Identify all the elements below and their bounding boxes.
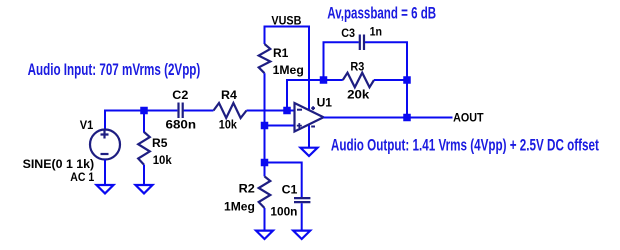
wire bias column R1 down through to R2 [264,73,266,176]
ground under C1 [293,231,310,239]
resistor R3 [343,73,374,88]
resistor R5 [138,132,150,165]
wire R2 bottom [264,208,266,231]
wire R3 left lead [324,79,343,81]
svg-text:C1: C1 [282,182,298,196]
svg-text:Audio Output: 1.41 Vrms (4Vpp): Audio Output: 1.41 Vrms (4Vpp) + 2.5V DC… [331,137,599,155]
wire R4 to op-amp inverting input [247,110,295,112]
junction node feedback left [320,76,328,84]
junction node noninverting branch [261,122,269,130]
voltage source V1 [90,130,120,160]
wire feedback vertical up from inverting node [287,80,324,111]
wire op-amp output to AOUT [324,117,453,119]
capacitor C3 [360,35,364,51]
svg-text:100n: 100n [270,205,297,219]
svg-text:U1: U1 [317,95,333,109]
svg-text:C3: C3 [341,26,355,40]
ground under op-amp [301,148,318,156]
svg-text:AC 1: AC 1 [70,170,94,184]
svg-text:R2: R2 [239,181,256,195]
svg-text:V1: V1 [80,118,94,132]
svg-text:AOUT: AOUT [453,111,484,125]
wire C2 to R4 [184,110,214,112]
svg-text:680n: 680n [166,117,197,131]
svg-text:C2: C2 [172,88,188,102]
svg-text:1Meg: 1Meg [224,200,255,214]
wire R5 bottom [143,165,145,185]
svg-text:10k: 10k [153,153,172,167]
svg-text:VUSB: VUSB [271,13,301,27]
svg-text:1n: 1n [370,25,382,39]
junction node bias RC [261,159,269,167]
ground under R5 [136,185,153,193]
svg-text:R4: R4 [221,88,237,102]
wire R3 right lead [374,79,407,81]
svg-text:Av,passband = 6 dB: Av,passband = 6 dB [327,4,436,22]
svg-text:Audio Input: 707 mVrms (2Vpp): Audio Input: 707 mVrms (2Vpp) [28,61,201,79]
net flag VUSB wire [265,27,310,111]
resistor R1 [259,44,271,73]
wire C1 bottom [301,203,303,230]
svg-text:SINE(0 1 1k): SINE(0 1 1k) [23,157,95,171]
svg-text:20k: 20k [347,87,370,101]
resistor R4 [214,103,247,118]
wire C3 left branch [324,42,359,80]
junction node output feedback tap [403,114,411,122]
capacitor C1 [294,198,310,202]
wire op-amp V- power pin to ground [308,124,310,147]
wire signal row V1 to C2 [105,111,177,130]
wire C3 right branch [365,42,407,117]
ground under V1 [97,185,114,193]
junction node feedback right [403,76,411,84]
capacitor C2 [179,103,183,119]
ground under R2 [256,231,273,239]
wire bias node to C1 [265,163,302,198]
op-amp U1 [295,103,324,132]
svg-text:R3: R3 [350,60,364,74]
wire R5 top [143,111,145,133]
wire V1 bottom pin [104,160,106,186]
svg-text:R1: R1 [273,46,289,60]
junction node at R5 top [140,107,148,115]
svg-text:10k: 10k [219,117,237,131]
wire to noninverting input [265,125,295,127]
resistor R2 [259,176,271,208]
junction node at inverting input feedback [283,107,291,115]
svg-text:R5: R5 [152,136,168,150]
svg-text:1Meg: 1Meg [273,63,304,77]
